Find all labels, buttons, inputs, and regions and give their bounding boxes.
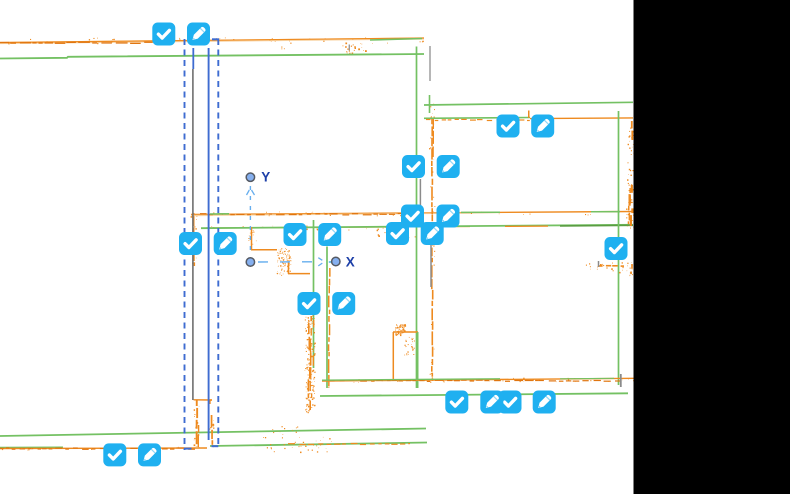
axis gizmo: X axis short dash near dot [329, 261, 333, 263]
wall scan: hallway bottom orange verticals [194, 400, 215, 447]
button check (top wall) [152, 23, 175, 46]
door detection: dashed rect top corner [212, 38, 219, 40]
wall scan: mid horizontal wall y~213 (orange) [191, 212, 633, 217]
button pencil (hallway) [214, 232, 237, 255]
button pencil (pair B pencil x~436) [437, 205, 460, 228]
button check (center wall) [284, 223, 307, 246]
button check (pair B x~401) [401, 205, 424, 228]
wall line: bottom-left long green y~433 [0, 429, 426, 437]
wall line: mid horizontal green segments y~213 [210, 212, 620, 214]
side panel (black) [634, 0, 790, 494]
button pencil (right room top) [531, 115, 554, 138]
button pencil (bottom row 2) [480, 391, 503, 414]
button pencil (bottom-left wall) [138, 443, 161, 466]
wall scan: closet rectangle (orange) [393, 324, 418, 381]
wall scan: noise dashes near pair C [377, 227, 416, 240]
svg-text:Y: Y [261, 170, 270, 185]
survey line: gray vertical x=430 top [429, 46, 431, 81]
button pencil (bottom row 4) [533, 391, 556, 414]
wall scan: top exterior wall (orange) [0, 38, 424, 53]
axis gizmo: X label [346, 254, 355, 269]
wall line: right room top second (green y~118) [424, 117, 530, 120]
wall scan: right edge orange noise patches [626, 121, 635, 276]
button pencil (pair A x~402) [437, 155, 460, 178]
axis gizmo: X axis dashed line [258, 261, 312, 263]
wall scan: hallway left pillar (orange noise) [191, 213, 198, 266]
axis gizmo: X arrowhead [318, 258, 322, 266]
door detection: dashed rectangle left edge x=184.5 [184, 39, 186, 450]
wall line: left room right wall (green vertical x=416.5) [416, 47, 418, 389]
button pencil (below X) [332, 292, 355, 315]
button pencil (pair C x~386) [421, 222, 444, 245]
axis gizmo: origin handle dot [246, 258, 254, 266]
wall line: long interior wall y~226 (green) [201, 225, 633, 228]
svg-text:X: X [346, 254, 355, 269]
wall scan: second mid wall y~227 (orange) [206, 226, 470, 231]
wall scan: bottom of right rooms y~380 (orange) [322, 378, 634, 383]
wall scan: right room top (orange y~118.7) [426, 111, 633, 122]
wall line: long green y~395 behind buttons [320, 393, 628, 396]
button check (right room top) [497, 115, 520, 138]
button check (below X) [298, 292, 321, 315]
button check (pair A x~402) [402, 155, 425, 178]
wall scan: right room left wall (orange vertical x=431.5) [429, 104, 435, 381]
wall scan: bottom orange y~448 [0, 426, 410, 453]
door jamb: blue tip + gray line x=193.3 [192, 48, 194, 400]
survey line: gray vertical x=420.4 (between button pairs) [419, 179, 421, 206]
wall scan: kitchen step (orange) below hallway [248, 227, 310, 276]
wall line: right room top (green y~104) [424, 102, 633, 105]
wall scan: stray dots above left room (orange + gray) [281, 44, 356, 54]
axis gizmo: Y label [261, 170, 270, 185]
wall line: short green vertical x=429.5 top [429, 95, 431, 113]
wall line: green vertical x=313.5 [313, 220, 315, 368]
axis gizmo: Y arrowhead [247, 190, 255, 195]
door detection: dashed rect bottom edges [184, 446, 218, 448]
button pencil (center wall) [318, 223, 341, 246]
axis gizmo: X handle dot [332, 257, 340, 265]
wall line: closet right (green vertical x=417.7) [417, 332, 419, 388]
wall scan: orange vertical x=328.5 [328, 268, 331, 388]
wall line: top interior (green) [0, 54, 424, 59]
wall line: right exterior wall (green vertical x=618.5) [618, 111, 620, 385]
door detection: dashed rectangle right edge x=218.3 [217, 39, 219, 448]
button check (pair C x~386) [386, 222, 409, 245]
button check (bottom-left wall) [103, 443, 126, 466]
wall scan: small orange dashes below right check [586, 261, 624, 273]
button check (hallway) [179, 232, 202, 255]
wall line: green vertical x=327 [326, 247, 328, 389]
wall line: bottom green y~445 [0, 443, 427, 448]
survey line: gray vertical x=431 mid [430, 239, 432, 287]
axis gizmo: Y axis dashed line [249, 186, 251, 256]
button check (bottom row 1) [445, 391, 468, 414]
button pencil (top wall) [187, 23, 210, 46]
button check (bottom row 3, behind) [499, 391, 522, 414]
button check (right wall single) [605, 237, 628, 260]
axis gizmo: Y handle dot [246, 173, 254, 181]
survey line: gray tick x=620.8 [620, 374, 622, 387]
door jamb: solid blue line x=208.6 [208, 48, 210, 440]
wall scan: orange noise band x~307-315 [305, 316, 316, 414]
wall line: bottom of right rooms green segments y~379 [322, 378, 614, 380]
